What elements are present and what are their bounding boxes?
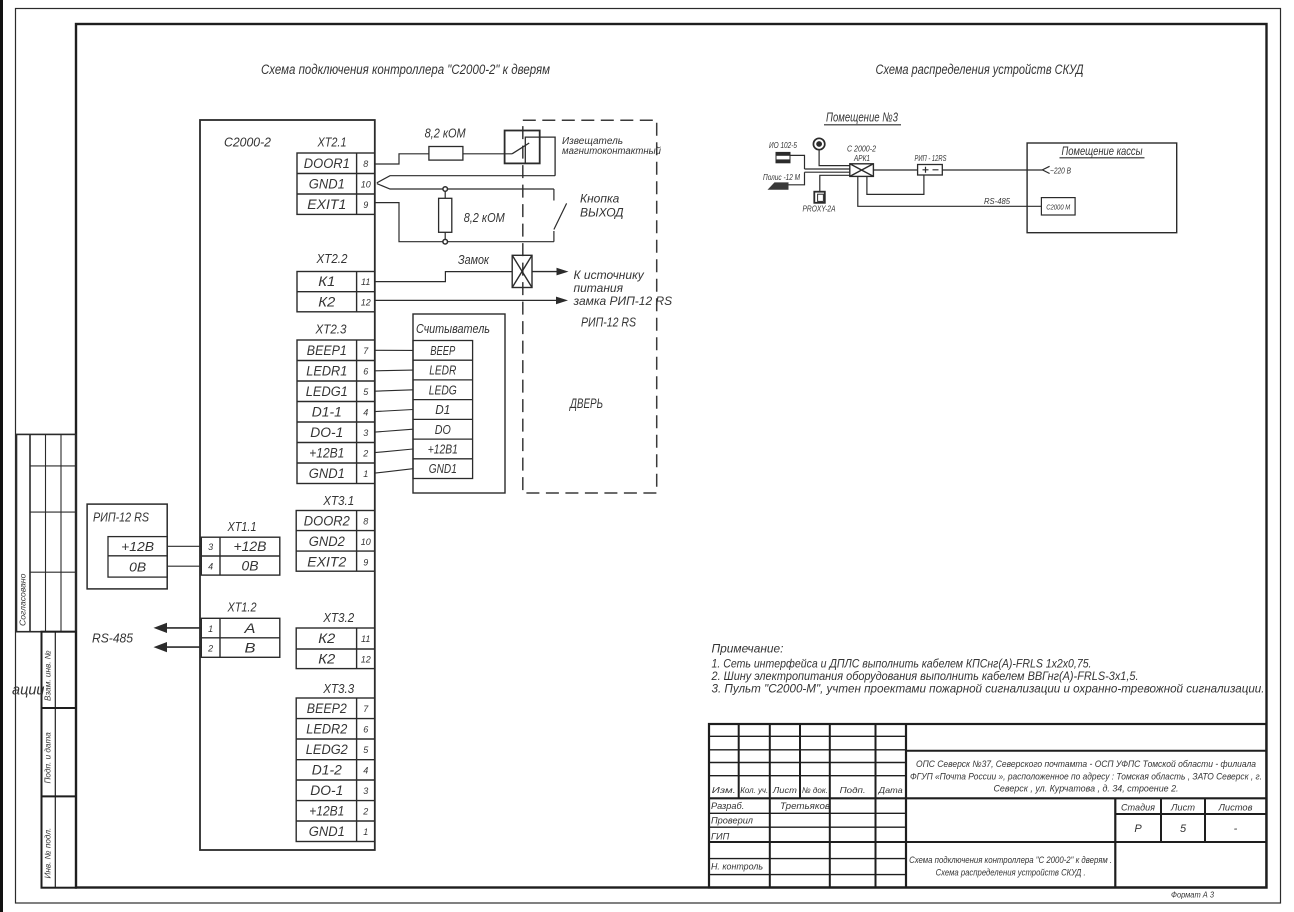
wire RIP +12V to XT1.1 <box>167 545 201 547</box>
svg-text:LEDR1: LEDR1 <box>306 364 347 379</box>
svg-text:РИП-12 RS: РИП-12 RS <box>93 511 150 525</box>
svg-text:замка РИП-12 RS: замка РИП-12 RS <box>573 294 673 308</box>
svg-text:2: 2 <box>362 807 368 817</box>
svg-text:4: 4 <box>363 766 368 776</box>
svg-text:Кнопка: Кнопка <box>580 192 620 206</box>
svg-text:Замок: Замок <box>458 252 490 267</box>
svg-text:К2: К2 <box>318 631 336 646</box>
svg-text:6: 6 <box>363 367 368 377</box>
wire pin12 arrow <box>375 297 568 305</box>
svg-text:LEDG2: LEDG2 <box>306 742 348 757</box>
svg-text:К2: К2 <box>318 652 336 667</box>
wire detector return to pin10 (open arrow) <box>377 176 555 183</box>
svg-text:LEDR: LEDR <box>429 363 456 378</box>
svg-text:К2: К2 <box>318 294 336 309</box>
svg-text:DO: DO <box>435 422 451 437</box>
reader box Считыватель <box>413 314 505 493</box>
wire RS-485 A arrow <box>154 623 202 633</box>
svg-text:магнитоконтактный: магнитоконтактный <box>562 146 661 157</box>
svg-text:АРК1: АРК1 <box>853 153 870 163</box>
svg-text:DOOR1: DOOR1 <box>304 156 350 171</box>
svg-text:ХТ3.1: ХТ3.1 <box>322 493 354 508</box>
svg-text:D1: D1 <box>435 402 450 417</box>
svg-text:+12В1: +12В1 <box>309 446 344 461</box>
wire Polis to junction <box>789 172 805 185</box>
svg-text:3. Пульт "С2000-М", учтен про: 3. Пульт "С2000-М", учтен проектами пожа… <box>712 682 1265 696</box>
svg-text:ХТ2.2: ХТ2.2 <box>316 251 349 266</box>
svg-text:+12В: +12В <box>234 539 267 554</box>
svg-text:3: 3 <box>208 542 213 552</box>
stage cells labels <box>1121 803 1253 836</box>
svg-text:ХТ1.1: ХТ1.1 <box>227 519 257 534</box>
svg-text:В: В <box>245 640 256 655</box>
svg-text:Формат А 3: Формат А 3 <box>1171 890 1214 900</box>
resistor R2 8,2 kOm vertical <box>439 191 452 241</box>
wire button return to pin10 (open arrow) <box>377 184 554 189</box>
svg-text:BEEP1: BEEP1 <box>307 343 347 358</box>
svg-text:11: 11 <box>361 634 370 644</box>
exit button SB1 <box>554 189 567 242</box>
svg-text:0В: 0В <box>242 559 259 574</box>
svg-text:Помещение №3: Помещение №3 <box>826 110 899 125</box>
svg-text:10: 10 <box>361 537 371 547</box>
svg-text:Лист: Лист <box>772 785 797 795</box>
approval stamp strip (Согласовано) <box>17 434 77 631</box>
svg-text:Схема подключения контроллера: Схема подключения контроллера "С 2000-2"… <box>909 855 1112 865</box>
wire RS-485 to C2000M <box>858 176 1042 206</box>
svg-text:Примечание:: Примечание: <box>712 642 784 656</box>
svg-text:2: 2 <box>207 643 213 653</box>
svg-text:Полис -12 М: Полис -12 М <box>763 172 801 182</box>
svg-text:К1: К1 <box>318 274 335 289</box>
terminal XT2.1 <box>297 135 375 215</box>
document title text <box>909 855 1112 877</box>
wire pin11 to lock <box>375 272 512 282</box>
detector SG1 magnet-contact <box>505 131 555 176</box>
svg-text:LEDR2: LEDR2 <box>306 722 347 737</box>
svg-text:PROXY-2A: PROXY-2A <box>803 204 836 214</box>
svg-text:ХТ2.1: ХТ2.1 <box>317 135 347 150</box>
terminal XT3.2 <box>296 610 375 669</box>
wire pin8 to resistor <box>375 154 429 164</box>
svg-text:9: 9 <box>363 558 368 568</box>
detector IO 102-5 <box>769 140 797 163</box>
wire PROXY up <box>820 175 850 191</box>
svg-text:Листов: Листов <box>1217 803 1252 813</box>
svg-text:+12В: +12В <box>121 539 154 554</box>
org address text <box>910 759 1262 794</box>
svg-text:РИП - 12RS: РИП - 12RS <box>915 153 947 163</box>
svg-text:Проверил: Проверил <box>711 816 753 826</box>
junction node top <box>443 187 448 192</box>
svg-text:Лист: Лист <box>1170 803 1195 813</box>
svg-text:С2000 М: С2000 М <box>1046 203 1071 212</box>
svg-text:ХТ2.3: ХТ2.3 <box>315 322 348 337</box>
svg-text:ации: ации <box>12 683 44 699</box>
arrow 220V <box>1042 166 1049 173</box>
svg-text:6: 6 <box>363 725 368 735</box>
svg-text:Северск , ул. Курчатова , д. 3: Северск , ул. Курчатова , д. 34, строени… <box>994 784 1179 794</box>
wire loop2 into controller <box>805 168 850 170</box>
wires XT2.3 to reader <box>375 350 413 473</box>
svg-text:Взам. инв. №: Взам. инв. № <box>44 650 53 701</box>
signature rows labels <box>711 801 830 872</box>
svg-text:питания: питания <box>574 281 624 295</box>
svg-text:+12В1: +12В1 <box>428 442 458 457</box>
svg-text:9: 9 <box>363 200 368 210</box>
svg-text:1: 1 <box>208 624 213 634</box>
svg-text:Кол. уч.: Кол. уч. <box>740 785 768 795</box>
wire controller to PSU <box>873 169 917 171</box>
terminal XT2.2 <box>297 251 375 312</box>
svg-text:GND2: GND2 <box>309 534 345 549</box>
terminal XT2.3 <box>297 322 375 484</box>
svg-text:DOOR2: DOOR2 <box>304 514 350 529</box>
svg-text:8,2 кОМ: 8,2 кОМ <box>464 210 505 225</box>
svg-text:D1-2: D1-2 <box>312 763 342 778</box>
svg-text:А: А <box>243 621 255 636</box>
svg-text:3: 3 <box>363 786 368 796</box>
svg-text:4: 4 <box>363 408 368 418</box>
svg-text:D1-1: D1-1 <box>312 405 342 420</box>
svg-text:0В: 0В <box>129 560 146 575</box>
svg-text:GND1: GND1 <box>309 466 345 481</box>
wire PSU to 220V <box>942 169 1042 171</box>
wire pin9 loop bottom <box>375 203 554 242</box>
svg-text:EXIT1: EXIT1 <box>307 197 346 212</box>
svg-text:Стадия: Стадия <box>1121 803 1155 813</box>
terminal XT3.1 <box>296 493 375 571</box>
svg-text:Считыватель: Считыватель <box>416 321 490 336</box>
scan edge bar left <box>0 0 3 912</box>
svg-text:Помещение кассы: Помещение кассы <box>1062 146 1143 158</box>
svg-text:1: 1 <box>363 827 368 837</box>
svg-text:Дата: Дата <box>878 785 904 795</box>
svg-text:№ док.: № док. <box>802 785 828 795</box>
svg-text:РИП-12 RS: РИП-12 RS <box>581 315 636 330</box>
title block header labels <box>712 785 903 795</box>
label Помещение №3 <box>824 110 901 125</box>
svg-text:11: 11 <box>361 277 370 287</box>
lock YA1 <box>512 255 532 287</box>
exit button right scheme <box>813 138 824 149</box>
svg-text:Инв. № подл.: Инв. № подл. <box>44 828 53 879</box>
svg-text:LEDG: LEDG <box>429 382 457 397</box>
svg-text:BEEP: BEEP <box>430 343 455 358</box>
console C2000M box <box>1041 198 1075 215</box>
svg-text:12: 12 <box>361 655 371 665</box>
junction node bottom <box>443 239 448 244</box>
wire resistor to detector <box>463 153 512 155</box>
svg-text:Н. контроль: Н. контроль <box>711 862 763 872</box>
svg-text:Третьяков: Третьяков <box>780 801 830 811</box>
svg-text:Схема распределения устройств: Схема распределения устройств СКУД <box>876 62 1084 77</box>
room box Помещение кассы <box>1027 143 1177 233</box>
controller C2000-2 box <box>200 120 375 850</box>
svg-text:LEDG1: LEDG1 <box>306 384 348 399</box>
svg-text:GND1: GND1 <box>309 824 345 839</box>
svg-text:BEEP2: BEEP2 <box>307 701 347 716</box>
svg-text:С2000-2: С2000-2 <box>224 135 272 150</box>
svg-text:К источнику: К источнику <box>574 268 645 282</box>
svg-text:ГИП: ГИП <box>711 832 730 842</box>
svg-text:8: 8 <box>363 517 368 527</box>
svg-text:3: 3 <box>363 428 368 438</box>
svg-text:Изм.: Изм. <box>712 785 736 795</box>
wire button down <box>819 150 850 166</box>
svg-text:1: 1 <box>363 469 368 479</box>
svg-text:Согласовано: Согласовано <box>18 573 28 626</box>
PSU RIP-12 RS box <box>87 504 167 589</box>
svg-text:ФГУП «Почта России », распол: ФГУП «Почта России », расположенное по а… <box>910 772 1262 782</box>
svg-text:-: - <box>1234 823 1238 835</box>
door dashed outline ДВЕРЬ <box>523 120 657 493</box>
terminal XT1.2 <box>201 600 279 658</box>
terminal XT3.3 <box>296 681 375 842</box>
title block grid <box>709 724 1266 888</box>
svg-text:DO-1: DO-1 <box>310 425 343 440</box>
detector Полис-12М <box>763 172 801 190</box>
wire power loop RIP <box>867 175 924 194</box>
reader PROXY-2A <box>803 192 836 214</box>
svg-text:Схема распределения устройств: Схема распределения устройств СКУД . <box>936 867 1086 877</box>
svg-text:Разраб.: Разраб. <box>711 801 744 811</box>
terminal XT1.1 <box>201 519 279 575</box>
svg-text:Схема подключения контроллера: Схема подключения контроллера "С2000-2" … <box>261 62 550 77</box>
svg-text:ОПС Северск №37, Северского: ОПС Северск №37, Северского почтамта - О… <box>916 759 1256 769</box>
svg-text:+12В1: +12В1 <box>309 804 344 819</box>
svg-text:GND1: GND1 <box>309 177 345 192</box>
svg-text:~220 В: ~220 В <box>1050 166 1071 176</box>
svg-text:DO-1: DO-1 <box>310 783 343 798</box>
svg-text:ХТ1.2: ХТ1.2 <box>227 600 257 615</box>
svg-text:5: 5 <box>1180 823 1187 835</box>
controller C2000-2 ARK1 <box>847 144 876 177</box>
svg-text:ДВЕРЬ: ДВЕРЬ <box>569 396 603 411</box>
resistor R1 8,2 kOm <box>429 147 463 161</box>
wire RS-485 B arrow <box>154 642 202 652</box>
svg-text:GND1: GND1 <box>429 461 457 476</box>
svg-text:ХТ3.3: ХТ3.3 <box>322 681 355 696</box>
notes Примечание <box>711 642 1265 696</box>
svg-text:4: 4 <box>208 562 213 572</box>
wire lock to PSU arrow <box>532 268 569 276</box>
svg-text:Р: Р <box>1134 823 1142 835</box>
svg-text:8: 8 <box>363 159 368 169</box>
stamp strip Взам.инв / Подп. и дата / Инв.№ подл. <box>42 632 77 888</box>
svg-text:Подп.: Подп. <box>840 785 866 795</box>
wire RIP 0V to XT1.1 <box>167 565 201 567</box>
svg-text:ВЫХОД: ВЫХОД <box>580 206 624 220</box>
svg-text:EXIT2: EXIT2 <box>307 555 347 570</box>
svg-text:ИО 102-5: ИО 102-5 <box>769 140 797 150</box>
svg-text:RS-485: RS-485 <box>92 632 133 646</box>
wire loop3 into controller <box>805 171 850 173</box>
wire IO to junction <box>790 155 805 169</box>
svg-text:12: 12 <box>361 297 371 307</box>
svg-text:10: 10 <box>361 180 371 190</box>
svg-text:2: 2 <box>362 449 368 459</box>
svg-text:RS-485: RS-485 <box>984 196 1010 206</box>
svg-text:8,2 кОМ: 8,2 кОМ <box>425 126 466 141</box>
svg-text:ХТ3.2: ХТ3.2 <box>322 610 355 625</box>
svg-text:Подп. и дата: Подп. и дата <box>44 732 53 784</box>
PSU RIP-12RS right <box>915 153 947 175</box>
